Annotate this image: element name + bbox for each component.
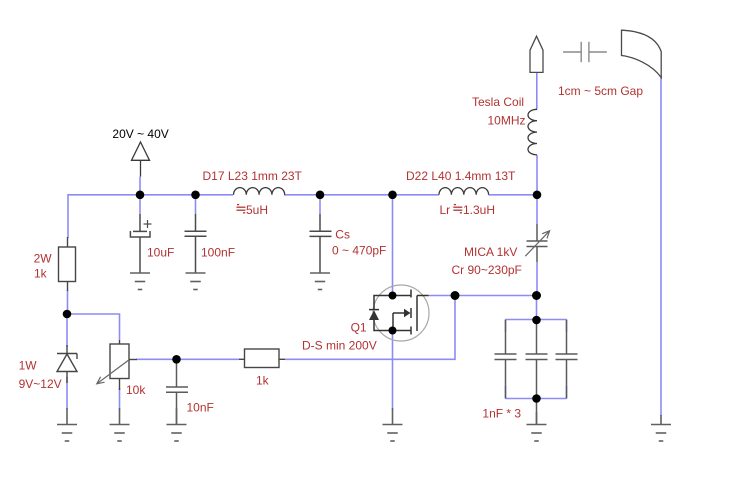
node: cap bank bottom — [532, 394, 541, 403]
wire: bus between L23 and D22 — [284, 194, 439, 196]
svg-text:1k: 1k — [256, 373, 270, 387]
node: drain junction — [388, 191, 397, 200]
capacitor bank C left 1nF — [495, 320, 517, 399]
node A: left rail split — [63, 310, 72, 319]
wire: power lead to bus — [139, 177, 141, 195]
power source symbol 20V~40V — [132, 142, 150, 177]
capacitor bank C right 1nF — [556, 320, 578, 399]
wire: tesla coil bottom to tank node — [536, 155, 538, 195]
svg-text:D-S min 200V: D-S min 200V — [302, 339, 377, 353]
svg-text:Cs: Cs — [335, 228, 350, 242]
svg-text:10nF: 10nF — [187, 401, 214, 415]
wire: gate resistor to gate corner — [285, 296, 455, 360]
label Lr approx 1.3uH — [440, 203, 496, 217]
svg-text:D17 L23 1mm 23T: D17 L23 1mm 23T — [203, 169, 303, 183]
inductor D22 (Lr) — [439, 188, 489, 195]
svg-text:5uH: 5uH — [246, 203, 268, 217]
wire: zener to ground — [66, 377, 68, 409]
wire: node A to zener — [66, 314, 68, 347]
label approx 5uH — [237, 203, 269, 217]
wire: electrode to tesla coil — [536, 72, 538, 109]
wire: Cr to node C — [536, 262, 538, 296]
ground (10uF) — [130, 273, 150, 290]
capacitor 10uF electrolytic — [130, 214, 151, 273]
node B: wiper/10nF junction — [172, 355, 181, 364]
node: mosfet drain dot — [389, 292, 397, 300]
svg-text:Tesla Coil: Tesla Coil — [472, 95, 524, 109]
wire: node C down to cap bank top node — [536, 296, 538, 320]
wire: left rail resistor to node A — [67, 290, 69, 314]
node: gate corner junction — [451, 291, 460, 300]
svg-text:0 ~ 470pF: 0 ~ 470pF — [332, 243, 386, 257]
curved collector plate — [622, 30, 662, 77]
transistor Q1 mosfet symbol — [369, 290, 429, 335]
svg-text:100nF: 100nF — [201, 246, 235, 260]
capacitor 10nF — [166, 359, 188, 424]
inductor L23 (D17 L23 1mm 23T) — [234, 188, 285, 195]
node: mosfet source dot — [389, 327, 397, 335]
svg-text:MICA 1kV: MICA 1kV — [464, 245, 517, 259]
wire: left rail down from bus to resistor R1 — [67, 194, 69, 238]
svg-text:1nF * 3: 1nF * 3 — [482, 406, 521, 420]
wire: source vertical to ground — [392, 331, 394, 410]
ground (100nF) — [186, 273, 206, 290]
capacitor Cs — [310, 214, 332, 273]
wire: cap bank bottom edge — [506, 398, 567, 400]
svg-text:20V ~ 40V: 20V ~ 40V — [112, 127, 168, 141]
wire: cap bank left edge lower — [505, 386, 507, 399]
variable capacitor Cr MICA — [527, 224, 548, 262]
wire: tank node down to Cr — [536, 195, 538, 224]
transistor Q1 circle — [373, 285, 429, 341]
wire: bus between D22 and tank node — [489, 194, 538, 196]
node C: gate/Cr junction — [532, 291, 541, 300]
ground (right rail) — [651, 415, 671, 441]
ground (mosfet source) — [383, 408, 403, 441]
potentiometer wiper arrow — [97, 360, 129, 383]
svg-text:D22 L40 1.4mm 13T: D22 L40 1.4mm 13T — [406, 169, 516, 183]
wire: node B to gate resistor — [177, 358, 240, 360]
ground (10nF) — [167, 408, 187, 441]
wire: cap bank top edge — [506, 319, 567, 321]
breakout electrode — [530, 36, 543, 72]
svg-text:Q1: Q1 — [351, 321, 367, 335]
wire: drain vertical — [392, 195, 394, 296]
resistor R 2W 1k — [59, 237, 76, 291]
svg-text:Lr: Lr — [440, 203, 451, 217]
wire: Cs top lead — [319, 195, 321, 214]
node: power junction — [136, 191, 145, 200]
node: tank junction — [533, 191, 542, 200]
wire: cap bank right edge lower — [566, 386, 568, 399]
svg-text:10k: 10k — [126, 383, 146, 397]
node: Cs junction — [316, 191, 325, 200]
ground (potentiometer) — [110, 408, 130, 441]
potentiometer 10k — [110, 340, 137, 390]
spark gap capacitor symbol — [563, 42, 607, 62]
wire: cap bank right edge upper — [566, 320, 568, 333]
svg-text:10MHz: 10MHz — [488, 114, 526, 128]
wire: 10uF top lead — [139, 195, 141, 214]
svg-text:9V~12V: 9V~12V — [19, 377, 62, 391]
wire: potentiometer bottom to ground — [119, 388, 121, 409]
svg-text:2W: 2W — [34, 252, 53, 266]
wire: cap bank bottom node to ground — [536, 399, 538, 425]
svg-text:10uF: 10uF — [147, 246, 174, 260]
tesla coil secondary — [528, 109, 537, 155]
wire: node A to potentiometer top — [67, 314, 120, 340]
ground (Cs) — [310, 273, 330, 290]
capacitor bank C middle 1nF — [526, 320, 548, 399]
svg-text:1W: 1W — [19, 358, 38, 372]
variable capacitor arrow — [525, 231, 549, 256]
resistor 1k (gate) — [239, 349, 285, 368]
ground (zener) — [57, 408, 77, 441]
wire: right rail from curved plate to ground — [660, 76, 662, 416]
svg-text:1k: 1k — [34, 266, 48, 280]
node: cap bank top — [532, 316, 541, 325]
ground (cap bank) — [527, 412, 547, 441]
svg-text:1cm ~ 5cm Gap: 1cm ~ 5cm Gap — [558, 84, 643, 98]
svg-text:Cr 90~230pF: Cr 90~230pF — [452, 263, 522, 277]
svg-text:1.3uH: 1.3uH — [463, 203, 495, 217]
wire: cap bank left edge upper — [505, 320, 507, 333]
wire: 100nF top lead — [195, 195, 197, 214]
wire: wiper to node B — [136, 358, 177, 360]
wire: gate stub to node C — [429, 295, 537, 297]
wire: main bus y=194 left segment — [68, 194, 233, 196]
zener diode 1W 9V~12V — [57, 345, 77, 383]
node: 100nF junction — [191, 191, 200, 200]
capacitor 100nF — [185, 214, 207, 273]
